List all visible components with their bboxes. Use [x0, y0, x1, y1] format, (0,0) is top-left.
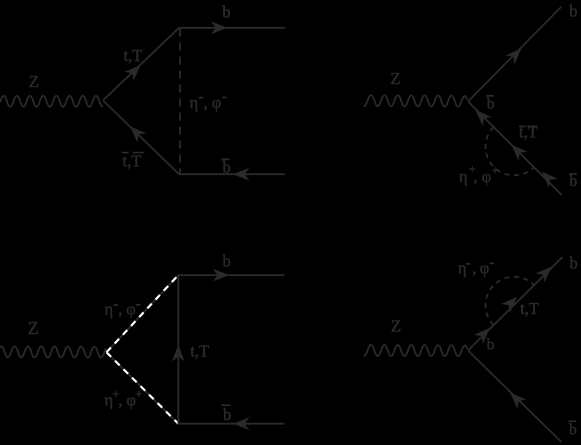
svg-text:b: b [487, 96, 495, 113]
wire: outgoing b quark line (D2 upper) [468, 7, 561, 102]
svg-text:b: b [570, 253, 578, 272]
svg-text:t,T: t,T [124, 46, 143, 65]
arrow on b line (D1) [211, 21, 228, 34]
wire: t,T fermion line from vertex to upper corner (D1) [103, 28, 179, 101]
arrow on tbar,Tbar segment (D2, mid) [511, 145, 527, 161]
arrow on internal bbar segment (D2, near vertex) [476, 110, 492, 126]
arrow on external bbar segment (D2, lower) [542, 172, 558, 188]
svg-text:t,T: t,T [190, 342, 209, 361]
arrow on t,T line (D3) [172, 345, 185, 362]
arrow on external b segment (D4, upper) [535, 267, 551, 283]
svg-text:t,T: t,T [123, 151, 142, 170]
wire: Z boson wavy line (D2) [364, 95, 468, 107]
svg-text:Z: Z [28, 318, 39, 338]
svg-text:b: b [487, 337, 495, 354]
wire: dashed eta-/phi- scalar semicircle loop (D4) [485, 277, 533, 325]
svg-text:Z: Z [29, 72, 39, 91]
svg-text:,: , [472, 259, 476, 278]
svg-text:,: , [118, 391, 122, 410]
arrow on bbar line (D3) [233, 417, 250, 430]
wire: eta+/phi+ scalar line to lower corner (D3, dark with white dashes) [107, 352, 179, 423]
wire: dashed eta+/phi+ scalar semicircle loop (D2) [485, 127, 533, 175]
arrow on b line (D3) [213, 269, 230, 282]
wire: Z boson wavy line (D4) [364, 345, 468, 356]
svg-text:η: η [105, 300, 114, 319]
svg-text:η: η [190, 93, 199, 112]
svg-text:φ: φ [482, 167, 492, 186]
wire: Z boson wavy line (D3) [0, 346, 106, 357]
wire: b / t,T fermion line (D4 upper) [468, 257, 563, 351]
arrow on tbar,Tbar line (D1) [130, 126, 146, 142]
wire: incoming bbar quark line (D3 bottom) [178, 423, 284, 425]
svg-text:b: b [223, 251, 231, 270]
svg-text:b: b [223, 405, 231, 424]
wire: dashed eta-/phi- scalar propagator (D1) [179, 29, 181, 174]
svg-text:b: b [223, 158, 231, 177]
svg-text:η: η [458, 259, 467, 278]
wire: incoming bbar quark line (D4 lower) [468, 351, 561, 442]
svg-text:η: η [459, 167, 468, 186]
svg-text:+: + [135, 387, 142, 401]
svg-text:Z: Z [390, 69, 400, 88]
svg-text:b: b [569, 2, 577, 21]
wire: Z boson wavy line (D1) [0, 96, 103, 107]
wire: bbar / tbar,Tbar fermion line (D2 lower) [468, 102, 562, 196]
arrow on internal b segment (D4, near vertex) [474, 328, 490, 344]
arrow on b line (D2) [505, 48, 521, 64]
svg-text:,: , [118, 300, 122, 319]
arrow on t,T line (D1) [124, 65, 140, 81]
svg-text:Z: Z [391, 317, 401, 336]
svg-text:t,T: t,T [520, 299, 539, 318]
svg-text:φ: φ [126, 300, 136, 319]
svg-text:,: , [204, 93, 208, 112]
arrow on bbar line (D4) [510, 393, 526, 409]
svg-text:b: b [570, 173, 578, 190]
svg-text:b: b [222, 3, 230, 22]
wire: eta-/phi- scalar line to upper corner (D3, dark with white dashes) [107, 275, 179, 352]
wire: t,T fermion exchange line (D3 vertical) [177, 275, 179, 424]
wire: outgoing b quark line (D1 top) [179, 27, 285, 29]
svg-text:b: b [569, 421, 577, 438]
wire: outgoing b quark line (D3 top) [178, 274, 284, 276]
wire: tbar,Tbar fermion line from vertex to lower corner (D1) [103, 100, 179, 174]
arrow on bbar line (D1) [233, 168, 250, 181]
svg-text:t,T: t,T [519, 123, 538, 142]
wire: incoming bbar quark line (D1 bottom) [179, 173, 285, 175]
arrow on t,T segment (D4, mid) [501, 297, 517, 313]
svg-text:+: + [492, 163, 499, 177]
svg-text:φ: φ [480, 259, 490, 278]
svg-text:,: , [473, 167, 477, 186]
svg-text:φ: φ [212, 93, 222, 112]
